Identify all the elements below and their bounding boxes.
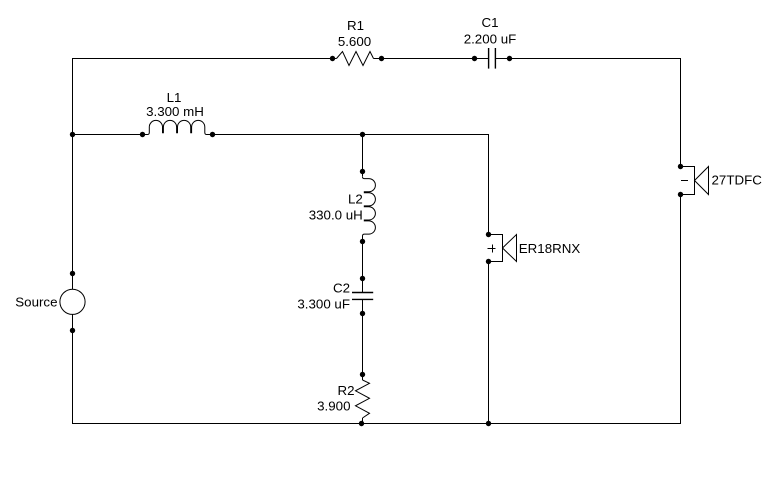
svg-text:3.300 mH: 3.300 mH xyxy=(146,104,204,119)
node bottom rail R2 junction xyxy=(359,421,364,426)
node R1 left xyxy=(330,56,335,61)
speaker 27TDFC body xyxy=(681,167,709,195)
node C2 bottom xyxy=(360,311,365,316)
node C1 left xyxy=(472,56,477,61)
wire L2 branch top xyxy=(362,135,364,177)
node woofer bottom xyxy=(486,259,491,264)
svg-text:2.200 uF: 2.200 uF xyxy=(464,32,517,47)
wire right rail upper xyxy=(680,58,682,167)
wire right rail lower xyxy=(680,195,682,425)
svg-text:L1: L1 xyxy=(167,90,182,105)
wire top rail right segment xyxy=(496,58,682,60)
svg-text:Source: Source xyxy=(15,295,57,310)
node bottom rail woofer junction xyxy=(486,421,491,426)
wire L1 row left xyxy=(72,134,147,136)
node left rail junction xyxy=(70,132,75,137)
wire top rail left segment xyxy=(72,58,337,60)
wire woofer to bottom rail xyxy=(488,262,490,425)
svg-text:ER18RNX: ER18RNX xyxy=(519,241,581,256)
svg-text:C2: C2 xyxy=(333,280,350,295)
svg-text:5.600: 5.600 xyxy=(338,34,371,49)
svg-text:27TDFC: 27TDFC xyxy=(712,173,763,188)
node C1 right xyxy=(507,56,512,61)
resistor R2 xyxy=(356,380,370,418)
wire R2 to bottom rail xyxy=(362,418,364,424)
svg-text:3.300 uF: 3.300 uF xyxy=(297,296,350,311)
inductor L1 xyxy=(147,120,206,134)
node R2 top xyxy=(360,372,365,377)
source V1 circle xyxy=(60,289,85,314)
svg-text:3.900: 3.900 xyxy=(317,399,350,414)
node L2 bottom xyxy=(360,239,365,244)
svg-text:C1: C1 xyxy=(481,15,498,30)
node source bottom xyxy=(70,328,75,333)
speaker ER18RNX body xyxy=(488,235,517,262)
wire L1 row right with corner down to woofer xyxy=(207,135,489,235)
wire left rail lower xyxy=(72,314,74,424)
node L2 branch junction xyxy=(360,132,365,137)
wire C2 to R2 xyxy=(362,299,364,380)
svg-text:R1: R1 xyxy=(347,18,364,33)
node tweeter top xyxy=(678,164,683,169)
svg-text:330.0 uH: 330.0 uH xyxy=(309,208,363,223)
node C2 top xyxy=(360,276,365,281)
node L1 right xyxy=(210,132,215,137)
wire left rail upper xyxy=(72,58,74,289)
inductor L2 xyxy=(363,177,376,236)
svg-text:L2: L2 xyxy=(348,191,363,206)
node tweeter bottom xyxy=(678,192,683,197)
node L2 top xyxy=(360,169,365,174)
wire top rail middle segment xyxy=(374,58,489,60)
node woofer top xyxy=(486,232,491,237)
wire L2 to C2 xyxy=(362,236,364,293)
svg-text:R2: R2 xyxy=(337,383,354,398)
capacitor C2 plates xyxy=(352,293,373,300)
resistor R1 xyxy=(337,52,374,66)
capacitor C1 plates xyxy=(489,48,496,69)
node R1 right xyxy=(379,56,384,61)
node source top xyxy=(70,271,75,276)
wire bottom rail xyxy=(72,423,681,425)
node L1 left xyxy=(140,132,145,137)
